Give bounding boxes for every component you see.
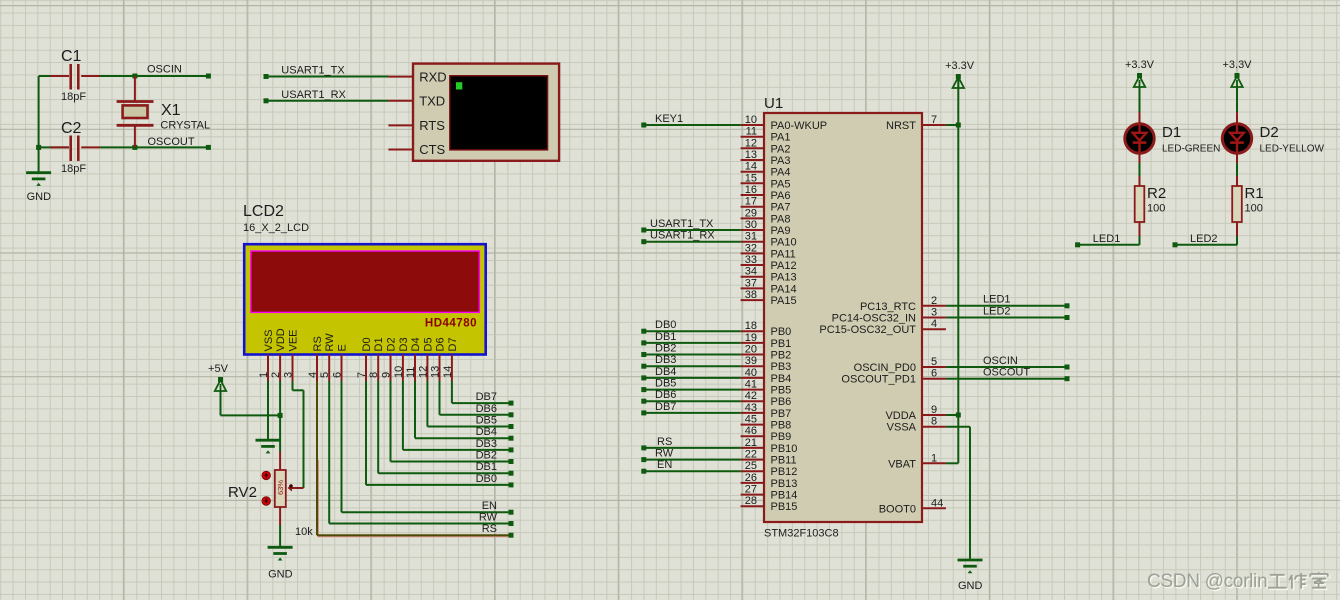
svg-text:14: 14 [745,161,757,173]
wire pot bottom to ground [279,507,281,547]
mcu pin 34 PA13 stub [741,276,764,278]
mcu pin 39 PB3 stub [741,365,764,367]
svg-text:28: 28 [745,495,757,507]
svg-text:21: 21 [745,437,757,449]
svg-text:32: 32 [745,242,757,254]
svg-text:GND: GND [958,580,983,592]
wire NRST to rail [946,124,958,126]
svg-text:BOOT0: BOOT0 [879,503,916,515]
mcu pin 25 PB12 stub [741,470,764,472]
svg-text:USART1_RX: USART1_RX [281,89,346,101]
svg-text:PB9: PB9 [771,431,792,443]
mcu pin 33 PA12 stub [741,264,764,266]
svg-text:PB7: PB7 [771,408,792,420]
mcu pin 1 VBAT stub [922,462,946,464]
wire OSCIN_PD0 to OSCIN [946,365,1070,370]
mcu pin 26 PB13 stub [741,482,764,484]
svg-text:16_X_2_LCD: 16_X_2_LCD [243,222,309,234]
svg-text:46: 46 [745,425,757,437]
junction OSCIN-crystal [132,74,137,79]
svg-text:PA3: PA3 [771,155,791,167]
svg-text:PB3: PB3 [771,361,792,373]
svg-text:D1: D1 [1162,124,1181,141]
svg-text:29: 29 [745,207,757,219]
wire DB5 to MCU [641,387,740,392]
svg-text:CRYSTAL: CRYSTAL [160,120,210,132]
svg-text:D3: D3 [398,337,410,351]
svg-text:LED2: LED2 [1190,233,1218,245]
svg-text:8: 8 [368,372,380,378]
svg-text:DB3: DB3 [476,438,497,450]
svg-text:LED-GREEN: LED-GREEN [1162,144,1220,155]
lcd pin label D7 [447,337,459,351]
lcd pin number 12 [417,366,429,378]
lcd pin 13 stub [439,355,441,382]
svg-text:TXD: TXD [419,94,445,109]
junction left rail [36,145,41,150]
wire LCD VEE to pot wiper [292,381,304,488]
virtual terminal VT1 body [413,64,559,161]
lcd pin 5 stub [328,355,330,382]
svg-text:LED1: LED1 [1093,233,1121,245]
terminal cursor [456,82,462,89]
svg-text:40: 40 [745,367,757,379]
svg-text:PB1: PB1 [771,338,792,350]
svg-text:4: 4 [931,318,937,330]
svg-text:LED1: LED1 [983,294,1011,306]
wire KEY1 to MCU [641,123,740,128]
svg-text:VSSA: VSSA [887,422,917,434]
lcd pin number 3 [283,372,295,378]
lcd pin 7 stub [365,355,367,382]
led D1 [1125,124,1154,153]
svg-text:DB6: DB6 [476,403,497,415]
lcd screen [251,251,480,312]
resistor R1 [1232,186,1242,222]
svg-text:42: 42 [745,390,757,402]
svg-text:20: 20 [745,344,757,356]
lcd pin number 13 [430,366,442,378]
svg-text:2: 2 [270,372,282,378]
svg-text:VDDA: VDDA [885,410,916,422]
wire DB6 to MCU [641,399,740,404]
svg-text:STM32F103C8: STM32F103C8 [764,528,839,540]
svg-text:7: 7 [356,372,368,378]
wire VBAT up to rail [946,415,958,463]
svg-text:RW: RW [324,333,336,352]
svg-text:OSCIN: OSCIN [983,355,1018,367]
svg-text:DB5: DB5 [655,378,676,390]
svg-text:VSS: VSS [263,329,275,351]
terminal pin CTS stub [388,149,413,151]
svg-text:18pF: 18pF [61,91,86,103]
svg-text:LED2: LED2 [983,306,1011,318]
wire +3.3V to D2 [1236,87,1238,123]
svg-text:PB8: PB8 [771,420,792,432]
lcd LCD2 body [244,244,486,354]
mcu pin 16 PA6 stub [741,194,764,196]
svg-text:RV2: RV2 [228,484,257,501]
mcu pin 8 VSSA stub [922,426,946,428]
svg-text:USART1_RX: USART1_RX [650,230,715,242]
lcd pin number 10 [393,366,405,378]
svg-text:PB0: PB0 [771,326,792,338]
svg-text:DB2: DB2 [476,450,497,462]
wire DB2 to MCU [641,352,740,357]
wire LCD RS to RS (olive) [317,381,514,538]
mcu pin 42 PB6 stub [741,400,764,402]
wire OSCIN net horizontal [39,75,209,77]
wire VSSA down to ground [946,427,970,559]
svg-text:PA9: PA9 [771,225,791,237]
svg-text:X1: X1 [161,102,181,119]
svg-text:RXD: RXD [419,69,446,84]
resistor R2 [1135,186,1145,222]
mcu pin 11 PA1 stub [741,136,764,138]
svg-text:18pF: 18pF [61,163,86,175]
mcu pin 41 PB5 stub [741,389,764,391]
svg-text:3: 3 [283,372,295,378]
svg-text:15: 15 [745,172,757,184]
wire LCD RW to RW [329,381,513,526]
wire LCD VSS down [267,381,269,439]
svg-text:PB11: PB11 [771,455,797,467]
wire D2 to R1 [1236,155,1238,187]
mcu pin 18 PB0 stub [741,330,764,332]
ground right of MCU [958,560,983,592]
lcd pin 9 stub [390,355,392,382]
svg-text:PA0-WKUP: PA0-WKUP [771,120,828,132]
mcu pin 7 NRST stub [922,124,946,126]
watermark CSDN @corlin studio [1147,571,1269,594]
lcd pin label D5 [422,337,434,351]
svg-text:7: 7 [931,114,937,126]
svg-text:DB3: DB3 [655,354,676,366]
svg-text:DB0: DB0 [476,473,497,485]
capacitor C1 [71,64,79,90]
svg-text:43: 43 [745,402,757,414]
svg-text:KEY1: KEY1 [655,113,683,125]
svg-text:37: 37 [745,277,757,289]
terminal pin RTS stub [388,124,413,126]
mcu pin 2 PC13_RTC stub [922,305,946,307]
svg-text:E: E [337,344,349,351]
led D2 [1222,124,1251,153]
svg-text:PA2: PA2 [771,143,791,155]
mcu pin 45 PB8 stub [741,424,764,426]
svg-text:16: 16 [745,184,757,196]
svg-text:USART1_TX: USART1_TX [281,65,345,77]
mcu pin 17 PA7 stub [741,206,764,208]
svg-text:DB0: DB0 [655,319,676,331]
svg-text:12: 12 [417,366,429,378]
svg-text:PB12: PB12 [771,466,798,478]
pot RV2 top adjust circle [262,471,270,479]
junction +5V VDD [278,413,283,418]
svg-text:38: 38 [745,289,757,301]
svg-text:PB13: PB13 [771,478,798,490]
lcd pin label D3 [398,337,410,351]
wire DB3 to MCU [641,364,740,369]
lcd pin number 5 [319,372,331,378]
mcu pin 3 PC14-OSC32_IN stub [922,317,946,319]
svg-text:PA7: PA7 [771,202,791,214]
mcu pin 30 PA9 stub [741,229,764,231]
mcu pin 6 OSCOUT_PD1 stub [922,378,946,380]
svg-text:CSDN @corlin: CSDN @corlin [1147,571,1267,592]
svg-text:LED-YELLOW: LED-YELLOW [1260,144,1325,155]
svg-text:10k: 10k [295,526,313,538]
svg-text:39: 39 [745,355,757,367]
power +3.3V symbol (D2) [1222,59,1252,87]
mcu pin 40 PB4 stub [741,377,764,379]
svg-text:OSCIN_PD0: OSCIN_PD0 [854,362,916,374]
svg-text:PB4: PB4 [771,373,792,385]
svg-text:DB5: DB5 [476,415,497,427]
wire LCD D5 to DB5 [427,381,513,429]
svg-text:31: 31 [745,231,757,243]
lcd pin label RW [324,333,336,352]
lcd pin label VDD [275,328,287,351]
lcd pin number 9 [381,372,393,378]
potentiometer RV2 body [275,470,293,507]
svg-text:LCD2: LCD2 [243,203,284,220]
svg-text:1: 1 [258,372,270,378]
svg-text:C1: C1 [61,48,82,65]
svg-text:12: 12 [745,137,757,149]
terminal screen [450,76,548,150]
junction OSCOUT-crystal [132,145,137,150]
lcd pin label E [337,344,349,351]
svg-text:9: 9 [931,404,937,416]
wire DB0 to MCU [641,329,740,334]
svg-text:PC14-OSC32_IN: PC14-OSC32_IN [832,313,916,325]
mcu pin 13 PA3 stub [741,159,764,161]
svg-text:U1: U1 [764,95,783,112]
mcu pin 32 PA11 stub [741,252,764,254]
lcd pin number 2 [270,372,282,378]
svg-text:NRST: NRST [886,120,916,132]
svg-text:USART1_TX: USART1_TX [650,218,714,230]
lcd pin 2 stub [279,355,281,382]
svg-text:DB7: DB7 [655,401,676,413]
pot RV2 bottom adjust circle [262,497,270,505]
svg-text:DB1: DB1 [476,461,497,473]
svg-text:5: 5 [931,356,937,368]
capacitor C2 [71,136,79,162]
wire USART1_TX to terminal [264,74,413,79]
mcu U1 body [764,113,922,522]
svg-text:PA4: PA4 [771,167,791,179]
wire USART1_RX to MCU [641,239,740,244]
wire PC14 to LED2 [946,315,1070,320]
svg-text:10: 10 [745,114,757,126]
wire DB1 to MCU [641,340,740,345]
svg-text:D0: D0 [361,337,373,351]
wire EN to MCU [641,469,740,474]
svg-text:D2: D2 [1260,124,1279,141]
wire D1 to R2 [1139,155,1141,187]
lcd pin label RS [312,336,324,351]
svg-text:2: 2 [931,295,937,307]
lcd pin label D1 [373,337,385,351]
svg-text:41: 41 [745,379,757,391]
svg-text:45: 45 [745,414,757,426]
svg-text:RS: RS [312,336,324,351]
lcd pin label D4 [410,337,422,351]
svg-text:5: 5 [319,372,331,378]
svg-text:R1: R1 [1245,185,1264,202]
lcd pin number 1 [258,372,270,378]
lcd pin 4 stub [316,355,318,382]
lcd pin number 11 [405,367,417,378]
svg-text:18: 18 [745,320,757,332]
lcd pin label D2 [386,337,398,351]
svg-text:RW: RW [655,448,674,460]
mcu pin 38 PA15 stub [741,299,764,301]
svg-text:13: 13 [745,149,757,161]
svg-text:9: 9 [381,372,393,378]
svg-text:33: 33 [745,254,757,266]
svg-text:EN: EN [482,500,497,512]
mcu pin 5 OSCIN_PD0 stub [922,366,946,368]
svg-text:GND: GND [268,569,293,581]
svg-text:PA6: PA6 [771,190,791,202]
svg-text:PC15-OSC32_OUT: PC15-OSC32_OUT [819,324,916,336]
svg-text:26: 26 [745,472,757,484]
mcu pin 4 PC15-OSC32_OUT stub [922,328,946,330]
svg-text:C2: C2 [61,120,82,137]
ground GND top-left [26,173,51,203]
lcd pin 11 stub [414,355,416,382]
lcd pin number 14 [442,366,454,378]
svg-text:+3.3V: +3.3V [945,60,975,72]
power +3.3V symbol (D1) [1125,59,1155,87]
wire USART1_TX to MCU [641,228,740,233]
svg-text:CTS: CTS [419,142,445,157]
svg-text:VBAT: VBAT [888,458,916,470]
lcd pin 6 stub [341,355,343,382]
mcu pin 29 PA8 stub [741,217,764,219]
lcd pin 3 stub [292,355,294,382]
lcd pin label VEE [288,329,300,351]
svg-text:3: 3 [931,307,937,319]
wire DB4 to MCU [641,375,740,380]
svg-text:DB4: DB4 [476,426,497,438]
svg-text:+3.3V: +3.3V [1125,59,1155,71]
svg-text:PA5: PA5 [771,178,791,190]
wire R1 to LED2 [1173,222,1238,247]
mcu pin 46 PB9 stub [741,435,764,437]
ground under VSS [256,440,281,453]
wire LCD E to EN [342,381,514,515]
mcu pin 20 PB2 stub [741,354,764,356]
lcd pin number 7 [356,372,368,378]
mcu pin 28 PB15 stub [741,505,764,507]
svg-text:+3.3V: +3.3V [1222,59,1252,71]
mcu pin 15 PA5 stub [741,182,764,184]
wire RW to MCU [641,457,740,462]
crystal X1 [117,76,154,147]
wire +3.3V rail vertical [957,79,959,415]
svg-text:D7: D7 [447,337,459,351]
mcu pin 10 PA0-WKUP stub [741,124,764,126]
lcd pin label VSS [263,329,275,351]
wire DB7 to MCU [641,410,740,415]
svg-text:100: 100 [1245,203,1263,215]
wire LCD VDD down to pot top [279,381,281,470]
svg-text:PA1: PA1 [771,132,791,144]
svg-text:D6: D6 [435,337,447,351]
junction NRST rail [956,123,961,128]
svg-text:22: 22 [745,449,757,461]
lcd pin 10 stub [402,355,404,382]
svg-text:PC13_RTC: PC13_RTC [860,301,916,313]
power +3.3V symbol (mcu) [945,60,975,88]
svg-text:4: 4 [307,372,319,378]
power +5V symbol [208,363,229,391]
mcu pin 37 PA14 stub [741,287,764,289]
mcu pin 27 PB14 stub [741,494,764,496]
lcd pin number 4 [307,372,319,378]
svg-text:1: 1 [931,452,937,464]
wire OSCOUT net horizontal [39,146,209,148]
svg-text:6: 6 [931,368,937,380]
svg-text:DB6: DB6 [655,389,676,401]
svg-text:6: 6 [332,372,344,378]
svg-text:PA15: PA15 [771,295,797,307]
svg-text:D1: D1 [373,337,385,351]
mcu pin 9 VDDA stub [922,414,946,416]
wire LCD D7 to DB7 [452,381,514,406]
svg-text:34: 34 [745,266,757,278]
wire LCD D4 to DB4 [415,381,514,441]
svg-text:D5: D5 [422,337,434,351]
svg-text:PB5: PB5 [771,385,792,397]
svg-text:44: 44 [931,497,943,509]
mcu pin 21 PB10 stub [741,447,764,449]
mcu pin 43 PB7 stub [741,412,764,414]
svg-text:19: 19 [745,332,757,344]
lcd pin label D6 [435,337,447,351]
wire VDDA to rail [946,414,958,416]
mcu pin 44 BOOT0 stub [922,507,946,509]
terminal OSCOUT [206,145,211,150]
svg-text:OSCOUT: OSCOUT [148,136,195,148]
lcd pin 1 stub [267,355,269,382]
svg-text:10: 10 [393,366,405,378]
svg-text:RW: RW [479,512,498,524]
svg-text:GND: GND [27,191,51,203]
svg-text:D2: D2 [386,337,398,351]
svg-text:PA8: PA8 [771,213,791,225]
svg-text:VEE: VEE [288,329,300,351]
svg-text:14: 14 [442,366,454,378]
wire LCD D0 to DB0 [366,381,514,487]
wire LCD D6 to DB6 [440,381,514,417]
svg-text:11: 11 [746,126,757,138]
wire LCD D3 to DB3 [403,381,514,452]
svg-text:DB4: DB4 [655,366,676,378]
svg-text:PB10: PB10 [771,443,798,455]
svg-text:PA11: PA11 [771,248,796,260]
mcu pin 22 PB11 stub [741,459,764,461]
svg-text:PB14: PB14 [771,490,798,502]
svg-text:HD44780: HD44780 [425,318,477,330]
svg-text:RTS: RTS [419,118,445,133]
svg-text:30: 30 [745,219,757,231]
svg-text:+5V: +5V [208,363,229,375]
